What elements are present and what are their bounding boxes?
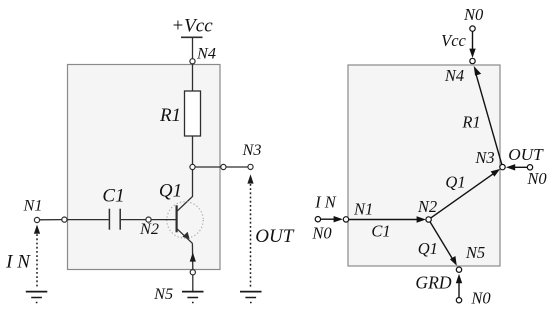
emitter arrowhead xyxy=(182,232,189,239)
svg-text:N0: N0 xyxy=(463,5,484,24)
svg-text:N2: N2 xyxy=(417,197,437,216)
emitter diagonal with arrow xyxy=(177,229,193,244)
node at box left edge xyxy=(62,217,67,222)
IN dotted probe line xyxy=(36,234,38,289)
svg-text:N1: N1 xyxy=(23,197,43,215)
transistor Q1 dotted envelope xyxy=(167,202,203,238)
svg-text:OUT: OUT xyxy=(255,226,294,247)
svg-text:GRD: GRD xyxy=(415,273,451,293)
edge Q1 lower: N2 to N5 arrow xyxy=(430,222,453,259)
capacitor C1 plates xyxy=(109,209,120,230)
svg-text:N1: N1 xyxy=(353,200,373,219)
edge R1: N3 to N4 arrow xyxy=(476,72,502,164)
wire edge node to N3 xyxy=(226,166,248,168)
node N3 xyxy=(248,164,253,169)
svg-text:Vcc: Vcc xyxy=(441,31,466,50)
svg-text:N5: N5 xyxy=(153,285,173,303)
wire collector to transistor xyxy=(177,170,193,212)
svg-text:N3: N3 xyxy=(242,141,262,159)
node N2 (graph) xyxy=(426,217,431,222)
node N4 xyxy=(190,59,195,64)
svg-text:N0: N0 xyxy=(526,169,547,188)
wire R1 to collector junction xyxy=(192,136,194,164)
graph enclosure box (right) xyxy=(348,65,500,266)
svg-text:R1: R1 xyxy=(461,113,480,132)
ground N5 xyxy=(182,292,204,303)
OUT arrowhead xyxy=(247,174,253,183)
wire Vcc bar to N4 xyxy=(192,37,194,58)
node N5 (graph) xyxy=(456,267,461,272)
OUT dotted probe line xyxy=(250,184,252,289)
svg-text:OUT: OUT xyxy=(508,145,544,164)
svg-text:+Vcc: +Vcc xyxy=(171,16,213,37)
node N3 (graph) xyxy=(500,164,505,169)
node N0 top xyxy=(470,26,475,31)
node N1 (graph) xyxy=(343,217,348,222)
edge C1: N1 to N2 arrow xyxy=(349,219,420,221)
wire edge node to ground N5 xyxy=(192,275,194,292)
svg-text:C1: C1 xyxy=(371,222,390,241)
node N4 (graph) xyxy=(470,58,475,63)
node N0 left xyxy=(315,217,320,222)
svg-text:R1: R1 xyxy=(159,105,181,126)
transistor Q1 base bar xyxy=(176,205,178,232)
wire N1 to edge node xyxy=(40,219,62,221)
Vcc supply bar xyxy=(181,36,203,38)
wire N4 to R1 xyxy=(192,64,194,91)
edge Vcc: N0 to N4 arrow xyxy=(472,31,474,49)
edge IN: N0 to N1 arrow xyxy=(321,218,335,220)
svg-text:C1: C1 xyxy=(102,186,124,207)
svg-text:N4: N4 xyxy=(196,44,216,62)
node N2 xyxy=(146,217,151,222)
wire C1 to N2 xyxy=(121,219,146,221)
up arrowhead on emitter wire xyxy=(190,252,196,261)
node N0 bottom xyxy=(456,298,461,303)
svg-text:N2: N2 xyxy=(139,220,159,238)
svg-text:Q1: Q1 xyxy=(445,173,465,192)
node at box bottom edge xyxy=(190,270,195,275)
ground under OUT xyxy=(240,292,262,303)
IN arrowhead xyxy=(34,225,40,234)
svg-text:N0: N0 xyxy=(311,224,332,243)
svg-text:Q1: Q1 xyxy=(159,181,182,202)
wire box edge to C1 xyxy=(67,219,109,221)
resistor R1 xyxy=(185,91,201,136)
edge Q1 upper: N2 to N3 arrow xyxy=(431,173,495,218)
node N1 xyxy=(34,217,39,222)
ground under IN xyxy=(26,292,48,303)
edge OUT: N0 to N3 arrow xyxy=(514,166,527,168)
svg-text:I N: I N xyxy=(5,252,31,273)
base wire N2 to Q1 xyxy=(151,219,177,221)
svg-text:N5: N5 xyxy=(465,243,485,262)
svg-text:N0: N0 xyxy=(470,289,491,308)
edge GRD: N0 to N5 arrow xyxy=(458,283,460,298)
node at box right edge xyxy=(221,164,226,169)
svg-text:I N: I N xyxy=(314,193,337,212)
emitter vertical wire xyxy=(191,243,193,269)
node N0 right xyxy=(527,165,532,170)
svg-text:N3: N3 xyxy=(474,148,494,167)
schematic enclosure box (left) xyxy=(68,65,221,270)
wire junction to box edge xyxy=(195,166,221,168)
svg-text:Q1: Q1 xyxy=(418,239,438,258)
svg-text:N4: N4 xyxy=(444,66,464,85)
junction node on collector xyxy=(190,164,195,169)
